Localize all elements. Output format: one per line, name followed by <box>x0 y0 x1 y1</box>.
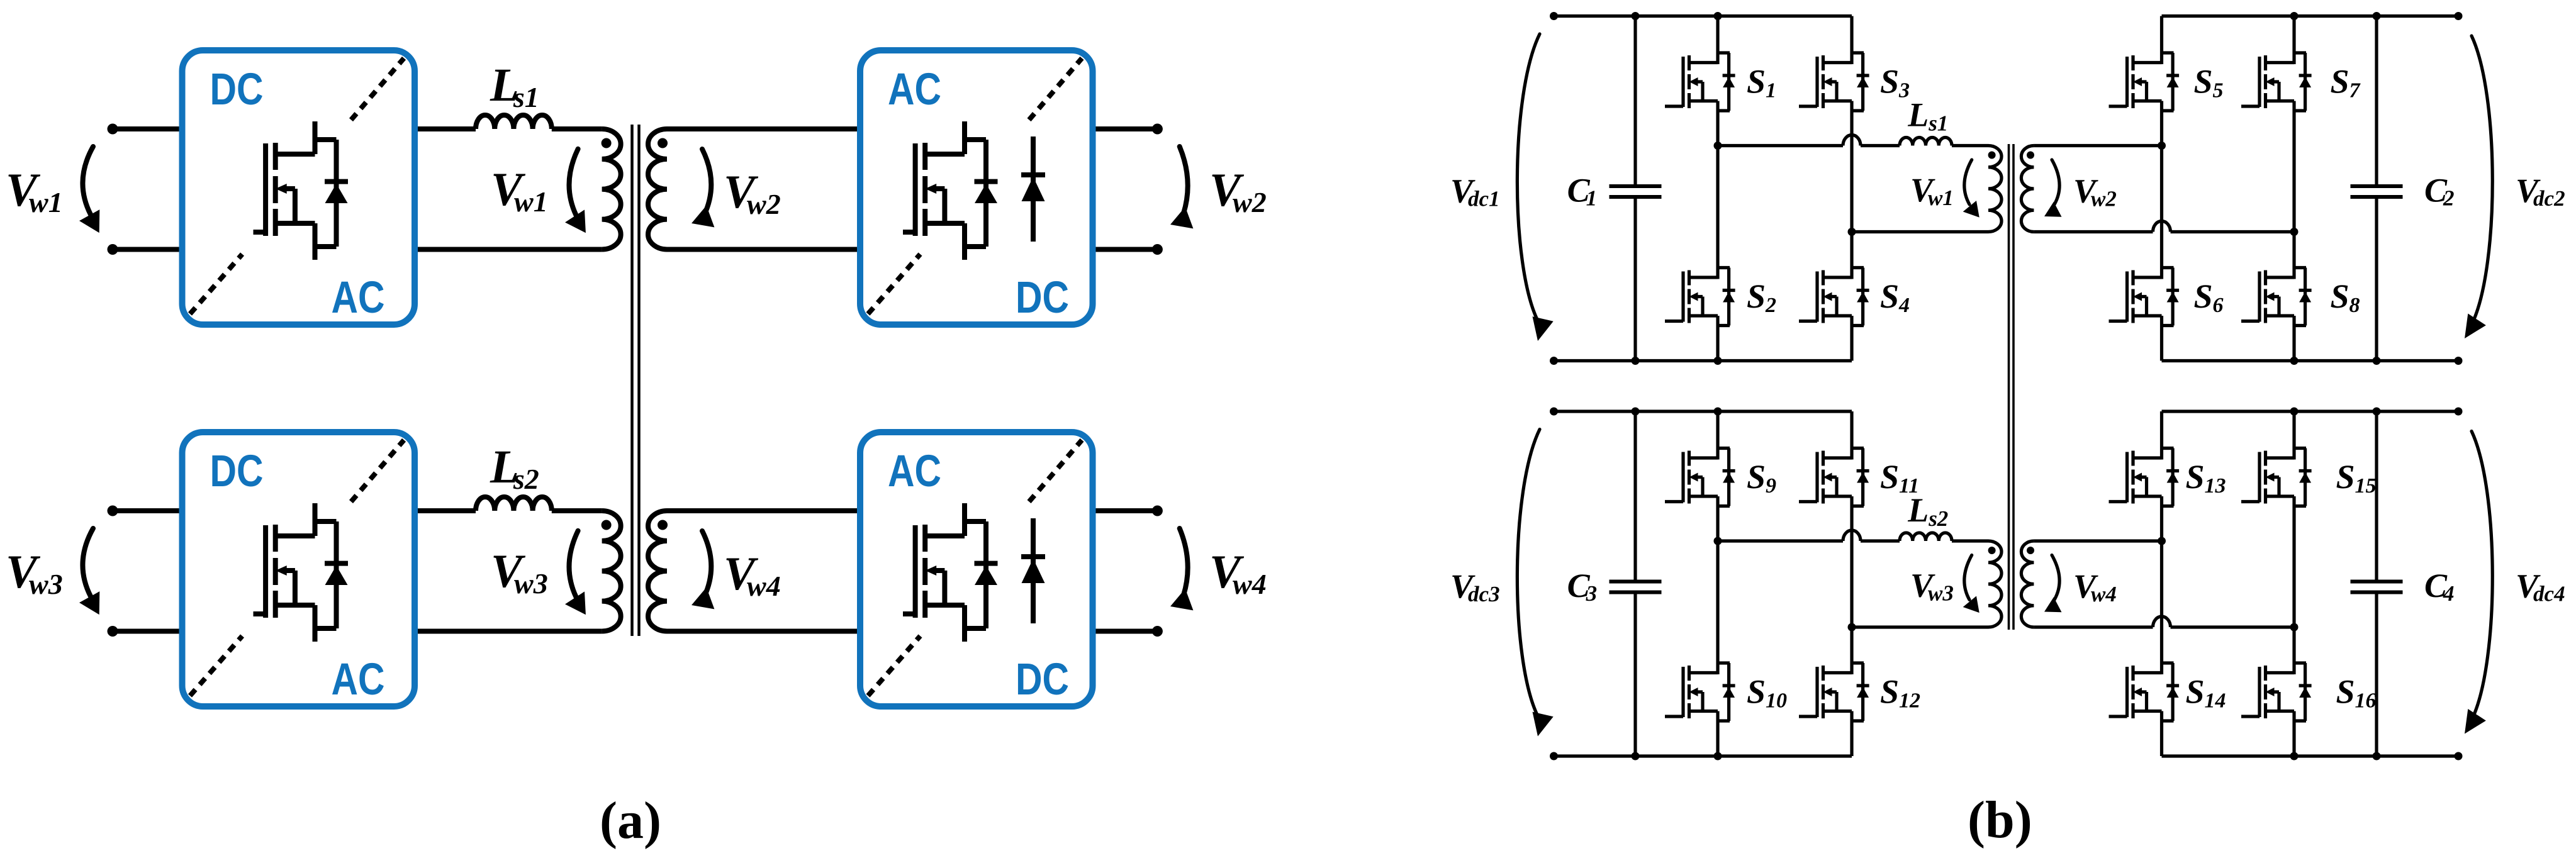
svg-text:AC: AC <box>332 655 385 705</box>
terminal node - V_dc1 <box>1550 357 1558 365</box>
polarity dot winding 4 <box>658 520 668 530</box>
wire top rail left bridge <box>1554 14 1852 18</box>
wire source lead S9 <box>1716 506 1719 542</box>
inductor L_s2 <box>476 497 552 511</box>
svg-text:AC: AC <box>332 273 385 323</box>
wire top rail right bridge <box>2162 409 2459 413</box>
polarity dot V_w1 (b) <box>1988 152 1996 159</box>
transistor S13 <box>2109 448 2180 506</box>
wire hop over leg at (2943,231.5) <box>1843 135 1861 146</box>
terminal node + V_dc3 <box>1550 408 1558 416</box>
wire source lead S8 <box>2292 326 2295 361</box>
junction <box>2290 752 2299 760</box>
transformer core line 1 (a) <box>630 125 634 636</box>
mosfet symbol in AC/DC block 2 <box>903 503 998 642</box>
voltage arrow Vw2 (right) <box>1170 147 1193 228</box>
diode symbol in AC/DC block 2 <box>1021 518 1045 623</box>
terminal node + Vw4 <box>1152 506 1163 516</box>
transistor S15 <box>2241 448 2312 506</box>
node mid leg S3/S4 <box>1848 228 1856 236</box>
transformer winding V_w4 (b) <box>2021 541 2034 627</box>
terminal node - Vw3 <box>108 626 118 637</box>
inductor L_s1 (b) <box>1900 138 1952 146</box>
junction <box>2373 12 2381 20</box>
transistor S11 <box>1799 448 1869 506</box>
transistor S2 <box>1665 268 1735 326</box>
transistor S1 <box>1665 53 1735 111</box>
node mid leg S1/S2 <box>1714 142 1722 150</box>
terminal node - V_dc3 <box>1550 752 1558 760</box>
svg-text:AC: AC <box>888 65 941 114</box>
wire <box>667 247 857 252</box>
svg-text:AC: AC <box>888 447 941 496</box>
wire drain lead S1 <box>1716 16 1719 53</box>
wire leg A mid to inductor <box>1718 144 1843 147</box>
transformer winding V_w2 (b) <box>2021 145 2034 231</box>
wire drain lead S14 <box>2160 541 2163 663</box>
junction <box>2373 752 2381 760</box>
voltage arrow V_dc3 <box>1517 430 1553 737</box>
transformer winding 2 (Vw2) <box>648 129 667 250</box>
wire drain lead S12 <box>1850 627 1853 663</box>
transistor S9 <box>1665 448 1735 506</box>
capacitor C2 <box>2351 16 2403 361</box>
wire <box>1096 126 1158 131</box>
wire source lead S2 <box>1716 326 1719 361</box>
transformer winding 3 (Vw3) <box>602 511 621 632</box>
capacitor C4 <box>2351 411 2403 756</box>
wire top rail left bridge <box>1554 409 1852 413</box>
terminal node + Vw2 <box>1152 124 1163 135</box>
wire drain lead S16 <box>2292 627 2295 663</box>
voltage arrow Vw1 (left) <box>79 147 99 233</box>
node mid leg S5/S6 <box>2158 142 2166 150</box>
wire drain lead S8 <box>2292 232 2295 268</box>
wire <box>667 629 857 634</box>
inductor L_s1 <box>476 115 552 129</box>
wire drain lead S3 <box>1850 16 1853 53</box>
transistor S12 <box>1799 663 1869 721</box>
wire source lead S5 <box>2160 111 2163 146</box>
wire bottom rail left bridge <box>1554 359 1852 362</box>
wire bottom rail left bridge <box>1554 754 1852 757</box>
wire <box>552 126 602 131</box>
wire leg A mid to inductor <box>1718 539 1843 542</box>
transistor S5 <box>2109 53 2180 111</box>
wire <box>552 508 602 513</box>
polarity dot winding 1 <box>602 138 612 148</box>
wire source lead S13 <box>2160 506 2163 542</box>
wire source lead S12 <box>1850 721 1853 756</box>
transformer core line 1 (b) <box>2008 144 2010 630</box>
wire <box>1096 508 1158 513</box>
terminal node - V_dc2 <box>2455 357 2463 365</box>
wire drain lead S10 <box>1716 541 1719 663</box>
voltage arrow Vw1 (winding) <box>565 149 586 233</box>
voltage arrow Vw2 (winding) <box>692 149 714 227</box>
wire drain lead S15 <box>2292 411 2295 448</box>
terminal node - Vw4 <box>1152 626 1163 637</box>
terminal node + V_dc4 <box>2455 408 2463 416</box>
transistor S6 <box>2109 268 2180 326</box>
wire source lead S6 <box>2160 326 2163 361</box>
voltage arrow V_w2 (b) <box>2044 160 2062 217</box>
voltage arrow Vw4 (winding) <box>692 531 714 609</box>
wire drain lead S4 <box>1850 232 1853 268</box>
transistor S4 <box>1799 268 1869 326</box>
wire source lead S10 <box>1716 721 1719 756</box>
voltage arrow Vw3 (left) <box>79 528 99 615</box>
voltage arrow V_dc2 <box>2465 36 2492 338</box>
wire <box>113 629 179 634</box>
node mid leg S11/S12 <box>1848 623 1856 632</box>
polarity dot V_w2 (b) <box>2027 152 2034 159</box>
wire source lead S4 <box>1850 326 1853 361</box>
polarity dot V_w4 (b) <box>2027 547 2034 554</box>
transistor S7 <box>2241 53 2312 111</box>
junction <box>1632 408 1640 416</box>
junction <box>1714 357 1722 365</box>
wire <box>418 629 602 634</box>
terminal node + Vw1 <box>108 124 118 135</box>
transistor S3 <box>1799 53 1869 111</box>
voltage arrow V_w4 (b) <box>2044 555 2062 613</box>
wire source lead S1 <box>1716 111 1719 146</box>
capacitor C3 <box>1610 411 1662 756</box>
terminal node - Vw2 <box>1152 244 1163 255</box>
terminal node + Vw3 <box>108 506 118 516</box>
svg-text:(b): (b) <box>1968 791 2032 849</box>
terminal node - V_dc4 <box>2455 752 2463 760</box>
wire drain lead S9 <box>1716 411 1719 448</box>
svg-text:DC: DC <box>210 447 264 496</box>
junction <box>1632 357 1640 365</box>
wire <box>1861 144 1900 147</box>
transistor S16 <box>2241 663 2312 721</box>
wire bottom rail right bridge <box>2162 754 2459 757</box>
node mid leg S9/S10 <box>1714 537 1722 545</box>
converter block DC/AC (Vw1 side) <box>182 50 415 325</box>
terminal node + V_dc1 <box>1550 12 1558 20</box>
wire leg B mid to winding bottom <box>1852 625 1988 628</box>
polarity dot V_w3 (b) <box>1988 547 1996 554</box>
junction <box>1632 12 1640 20</box>
wire hop over leg at (2943,860) <box>1843 530 1861 541</box>
wire source lead S15 <box>2292 506 2295 628</box>
wire drain lead S5 <box>2160 16 2163 53</box>
wire source lead S16 <box>2292 721 2295 756</box>
wire <box>418 126 476 131</box>
terminal node - Vw1 <box>108 244 118 255</box>
svg-text:DC: DC <box>1016 655 1069 705</box>
wire source lead S11 <box>1850 506 1853 628</box>
svg-text:DC: DC <box>210 65 264 114</box>
polarity dot winding 3 <box>602 520 612 530</box>
junction <box>2373 408 2381 416</box>
wire <box>418 508 476 513</box>
voltage arrow V_w1 (b) <box>1963 160 1980 218</box>
transistor S14 <box>2109 663 2180 721</box>
transformer winding V_w3 (b) <box>1988 541 2002 627</box>
wire <box>1096 629 1158 634</box>
wire drain lead S2 <box>1716 146 1719 268</box>
wire <box>1952 539 1988 542</box>
diode symbol in AC/DC block 1 <box>1021 136 1045 242</box>
transformer winding V_w1 (b) <box>1988 145 2002 231</box>
wire <box>1861 539 1900 542</box>
wire winding to right bridge leg C <box>2034 539 2161 542</box>
converter block AC/DC (Vw2 side) <box>860 50 1093 325</box>
transformer winding 4 (Vw4) <box>648 511 667 632</box>
node mid leg S15/S16 <box>2290 623 2299 632</box>
wire winding bottom to leg D <box>2034 230 2153 233</box>
wire drain lead S11 <box>1850 411 1853 448</box>
svg-text:DC: DC <box>1016 273 1069 323</box>
wire hop over leg at (3435.5,997) <box>2153 616 2171 627</box>
junction <box>2373 357 2381 365</box>
voltage arrow V_dc1 <box>1517 34 1553 341</box>
voltage arrow Vw4 (right) <box>1170 528 1193 610</box>
wire <box>418 247 602 252</box>
voltage arrow V_dc4 <box>2465 432 2492 734</box>
wire drain lead S7 <box>2292 16 2295 53</box>
svg-text:(a): (a) <box>600 791 661 850</box>
junction <box>1632 752 1640 760</box>
voltage arrow V_w3 (b) <box>1963 555 1980 613</box>
wire <box>667 508 857 513</box>
wire <box>113 247 179 252</box>
node mid leg S7/S8 <box>2290 228 2299 236</box>
wire drain lead S6 <box>2160 146 2163 268</box>
wire source lead S7 <box>2292 111 2295 232</box>
junction <box>2290 357 2299 365</box>
transistor S10 <box>1665 663 1735 721</box>
wire hop over leg at (3435.5,368.5) <box>2153 221 2171 232</box>
transformer core line 2 (a) <box>637 125 641 636</box>
transformer winding 1 (Vw1) <box>602 129 621 250</box>
voltage arrow Vw3 (winding) <box>565 531 586 615</box>
wire <box>2171 230 2295 233</box>
wire winding bottom to leg D <box>2034 625 2153 628</box>
inductor L_s2 (b) <box>1900 533 1952 541</box>
junction <box>1714 408 1722 416</box>
wire bottom rail right bridge <box>2162 359 2459 362</box>
transistor S8 <box>2241 268 2312 326</box>
wire source lead S3 <box>1850 111 1853 232</box>
wire <box>2171 625 2295 628</box>
junction <box>2290 12 2299 20</box>
node mid leg S13/S14 <box>2158 537 2166 545</box>
wire source lead S14 <box>2160 721 2163 756</box>
wire drain lead S13 <box>2160 411 2163 448</box>
mosfet symbol in DC/AC block 2 <box>254 503 349 642</box>
wire <box>667 126 857 131</box>
polarity dot winding 2 <box>658 138 668 148</box>
converter block DC/AC (Vw3 side) <box>182 432 415 706</box>
wire <box>113 126 179 131</box>
wire <box>1096 247 1158 252</box>
wire leg B mid to winding bottom <box>1852 230 1988 233</box>
mosfet symbol in AC/DC block 1 <box>903 121 998 260</box>
converter block AC/DC (Vw4 side) <box>860 432 1093 706</box>
junction <box>1714 752 1722 760</box>
wire winding to right bridge leg C <box>2034 144 2161 147</box>
transformer core line 2 (b) <box>2012 144 2015 630</box>
junction <box>1714 12 1722 20</box>
terminal node + V_dc2 <box>2455 12 2463 20</box>
wire top rail right bridge <box>2162 14 2459 18</box>
mosfet symbol in DC/AC block 1 <box>254 121 349 260</box>
wire <box>1952 144 1988 147</box>
junction <box>2290 408 2299 416</box>
wire <box>113 508 179 513</box>
capacitor C1 <box>1610 16 1662 361</box>
